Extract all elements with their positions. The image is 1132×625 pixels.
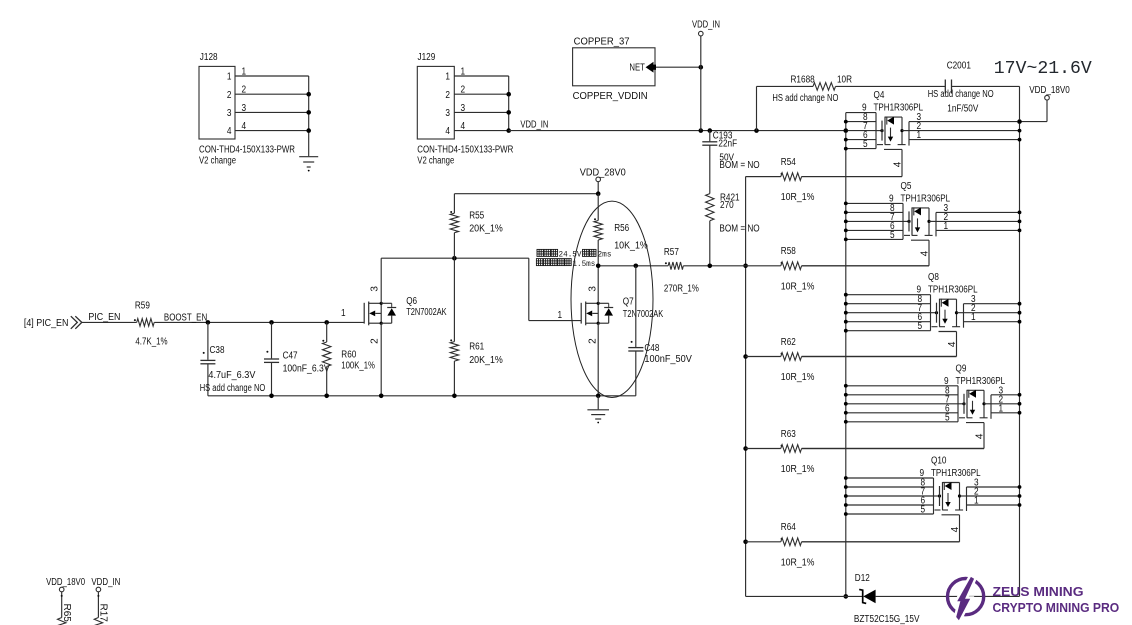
svg-text:R57: R57	[664, 247, 679, 258]
svg-text:4: 4	[445, 126, 450, 137]
svg-text:[4] PIC_EN: [4] PIC_EN	[24, 318, 69, 329]
svg-text:R59: R59	[135, 301, 150, 312]
wire drain bus (right)	[1019, 86, 1021, 596]
svg-text:C2001: C2001	[947, 60, 972, 71]
resistor R58 10R_1%	[746, 246, 929, 292]
svg-text:VDD_IN: VDD_IN	[692, 20, 720, 31]
wire source bus (left)	[844, 113, 849, 599]
svg-text:R62: R62	[781, 337, 796, 348]
wire BOOST_EN	[154, 312, 364, 324]
resistor R64 10R_1%	[746, 522, 960, 568]
svg-text:1: 1	[242, 67, 247, 78]
svg-text:20K_1%: 20K_1%	[469, 355, 503, 366]
wire NET to VDD_IN	[656, 65, 703, 70]
resistor R65 (cut off)	[58, 604, 72, 625]
transistor Q8 TPH1R306PL	[802, 272, 1022, 356]
svg-text:Q8: Q8	[928, 272, 939, 283]
power port VDD_18V0	[1017, 85, 1070, 124]
svg-text:2: 2	[227, 90, 232, 101]
power port VDD_18V0 (bottom left)	[46, 577, 85, 618]
svg-text:1.5ms: 1.5ms	[572, 259, 595, 269]
svg-text:CRYPTO MINING PRO: CRYPTO MINING PRO	[993, 600, 1120, 615]
svg-text:100K_1%: 100K_1%	[341, 361, 375, 372]
svg-text:1: 1	[944, 221, 949, 232]
svg-text:1: 1	[974, 496, 979, 507]
svg-text:R54: R54	[781, 157, 796, 168]
svg-text:BOM = NO: BOM = NO	[719, 223, 759, 234]
transistor Q7 T2N7002AK	[558, 266, 664, 396]
power port VDD_28V0	[580, 168, 626, 194]
resistor R57 270R_1%	[664, 247, 699, 295]
svg-text:1: 1	[461, 67, 466, 78]
svg-text:VDD_18V0: VDD_18V0	[46, 577, 85, 588]
svg-text:R63: R63	[781, 429, 796, 440]
wire gate drive bus	[743, 177, 781, 597]
wire D12 to drain bus	[876, 595, 1020, 597]
svg-text:VDD_28V0: VDD_28V0	[580, 168, 626, 179]
svg-text:COPPER_37: COPPER_37	[574, 36, 630, 47]
svg-text:10R_1%: 10R_1%	[781, 192, 815, 203]
svg-text:R64: R64	[781, 522, 796, 533]
svg-text:2ms: 2ms	[598, 250, 612, 260]
svg-text:C38: C38	[210, 345, 225, 356]
annotation Chinese note line1	[537, 249, 612, 259]
wire VDD_IN rail	[509, 119, 848, 133]
node gate drive row	[596, 264, 746, 269]
svg-text:D12: D12	[855, 573, 870, 584]
svg-text:ZEUS MINING: ZEUS MINING	[993, 584, 1084, 599]
svg-text:Q10: Q10	[931, 456, 947, 467]
svg-text:2: 2	[588, 338, 599, 344]
svg-text:J128: J128	[200, 52, 218, 63]
svg-text:T2N7002AK: T2N7002AK	[406, 307, 447, 318]
ground symbol (J128)	[299, 157, 318, 172]
resistor R172 (cut off)	[94, 604, 108, 625]
svg-text:5: 5	[863, 139, 868, 150]
resistor R61 20K_1%	[450, 258, 503, 396]
svg-text:3: 3	[588, 286, 599, 292]
svg-text:Q9: Q9	[956, 363, 967, 374]
svg-text:2: 2	[445, 90, 450, 101]
resistor R54 10R_1%	[746, 157, 902, 203]
svg-text:HS add change NO: HS add change NO	[772, 93, 838, 104]
wire J129 pin bus	[506, 76, 511, 133]
svg-text:2: 2	[461, 85, 466, 96]
svg-text:22nF: 22nF	[718, 138, 737, 149]
svg-text:Q4: Q4	[874, 90, 885, 101]
capacitor C47 100nF_6.3V	[264, 322, 330, 395]
svg-text:10R_1%: 10R_1%	[781, 281, 815, 292]
svg-text:10R_1%: 10R_1%	[781, 557, 815, 568]
wire VDD_28V0 rail	[454, 191, 600, 196]
svg-text:4: 4	[242, 121, 247, 132]
svg-text:3: 3	[227, 108, 232, 119]
svg-text:3: 3	[461, 103, 466, 114]
svg-text:R56: R56	[614, 223, 629, 234]
transistor Q10 TPH1R306PL	[802, 456, 1022, 542]
svg-text:HS add change NO: HS add change NO	[928, 89, 994, 100]
svg-text:R1688: R1688	[791, 75, 816, 86]
svg-text:4: 4	[919, 250, 930, 256]
svg-text:270R_1%: 270R_1%	[664, 284, 699, 295]
wire J128 pin bus	[306, 76, 311, 156]
svg-text:4: 4	[461, 121, 466, 132]
resistor R63 10R_1%	[746, 429, 984, 475]
svg-text:4: 4	[947, 341, 958, 347]
svg-text:10K_1%: 10K_1%	[614, 241, 648, 252]
svg-text:BOM = NO: BOM = NO	[719, 160, 759, 171]
svg-text:10R: 10R	[837, 75, 852, 86]
svg-text:20K_1%: 20K_1%	[469, 223, 503, 234]
svg-text:BOOST_EN: BOOST_EN	[164, 312, 207, 323]
svg-text:V2 change: V2 change	[199, 155, 236, 166]
svg-text:17V~21.6V: 17V~21.6V	[994, 59, 1092, 79]
svg-text:V2 change: V2 change	[417, 155, 454, 166]
svg-text:5: 5	[918, 321, 923, 332]
svg-text:COPPER_VDDIN: COPPER_VDDIN	[573, 91, 648, 102]
svg-text:HS add change NO: HS add change NO	[200, 383, 266, 394]
svg-text:Q7: Q7	[623, 297, 634, 308]
svg-text:5: 5	[921, 505, 926, 516]
svg-text:BZT52C15G_15V: BZT52C15G_15V	[854, 614, 920, 625]
capacitor C48 100nF_50V	[628, 266, 692, 396]
svg-text:VDD_IN: VDD_IN	[520, 119, 548, 130]
annotation Chinese note line2	[536, 259, 595, 269]
svg-text:1: 1	[971, 312, 976, 323]
wire Q6 drain to divider node	[381, 256, 581, 321]
svg-text:5: 5	[890, 230, 895, 241]
svg-text:1: 1	[227, 72, 232, 83]
svg-text:NET: NET	[629, 63, 645, 74]
resistor R56 10K_1%	[594, 194, 648, 266]
capacitor C38 4.7uF_6.3V	[200, 322, 266, 395]
svg-text:10R_1%: 10R_1%	[781, 372, 815, 383]
svg-text:C47: C47	[283, 351, 298, 362]
svg-text:1: 1	[999, 403, 1004, 414]
svg-text:2: 2	[369, 338, 380, 344]
power port VDD_IN (bottom left)	[91, 577, 120, 618]
svg-text:R55: R55	[469, 210, 484, 221]
wire gate bus to D12	[746, 595, 863, 597]
resistor R59 4.7K_1%	[134, 301, 168, 348]
svg-text:10R_1%: 10R_1%	[781, 464, 815, 475]
svg-text:J129: J129	[418, 52, 436, 63]
svg-text:4: 4	[950, 526, 961, 532]
resistor R60 100K_1%	[322, 322, 375, 395]
svg-text:4: 4	[227, 126, 232, 137]
diode D12 BZT52C15G_15V	[854, 573, 920, 625]
resistor R421	[706, 193, 760, 266]
power port VDD_IN (top)	[692, 20, 720, 131]
svg-text:4: 4	[974, 433, 985, 439]
capacitor C2001	[928, 60, 1020, 114]
transistor Q4 TPH1R306PL	[802, 90, 1022, 177]
transistor Q9 TPH1R306PL	[802, 363, 1022, 448]
svg-text:R60: R60	[341, 349, 356, 360]
svg-text:3: 3	[445, 108, 450, 119]
svg-text:3: 3	[369, 286, 380, 292]
svg-text:1: 1	[445, 72, 450, 83]
svg-text:VDD_IN: VDD_IN	[91, 577, 120, 588]
svg-text:1: 1	[558, 310, 563, 321]
svg-text:PIC_EN: PIC_EN	[88, 312, 120, 323]
svg-text:CON-THD4-150X133-PWR: CON-THD4-150X133-PWR	[417, 144, 513, 155]
ground symbol (main)	[587, 396, 609, 424]
wire PIC_EN	[82, 312, 137, 323]
svg-text:270: 270	[720, 200, 734, 211]
transistor Q5 TPH1R306PL	[802, 181, 1022, 266]
svg-text:100nF_6.3V: 100nF_6.3V	[283, 364, 330, 375]
resistor R1688	[757, 75, 946, 131]
svg-text:1nF/50V: 1nF/50V	[947, 104, 978, 115]
svg-text:CON-THD4-150X133-PWR: CON-THD4-150X133-PWR	[199, 144, 295, 155]
svg-text:R65: R65	[61, 604, 72, 623]
port [4] PIC_EN	[24, 316, 82, 329]
connector J128	[199, 52, 309, 166]
svg-text:4.7K_1%: 4.7K_1%	[135, 337, 167, 348]
svg-text:VDD_18V0: VDD_18V0	[1029, 85, 1070, 96]
svg-text:4.7uF_6.3V: 4.7uF_6.3V	[208, 370, 255, 381]
svg-text:100nF_50V: 100nF_50V	[644, 354, 692, 365]
svg-text:Q6: Q6	[406, 296, 417, 307]
wire ground rail	[208, 394, 636, 399]
resistor R55 20K_1%	[450, 194, 503, 259]
svg-text:T2N7002AK: T2N7002AK	[623, 309, 664, 320]
connector J129	[417, 52, 513, 166]
svg-text:1: 1	[341, 308, 346, 319]
svg-text:R61: R61	[469, 341, 484, 352]
svg-text:5: 5	[945, 412, 950, 423]
annotation 17V~21.6V	[994, 59, 1092, 79]
svg-text:4: 4	[892, 161, 903, 167]
logo Zeus Mining	[948, 577, 1120, 620]
svg-text:1: 1	[917, 130, 922, 141]
svg-text:R17: R17	[98, 604, 109, 623]
svg-text:3: 3	[242, 103, 247, 114]
resistor R62 10R_1%	[746, 337, 957, 383]
transistor Q6 T2N7002AK	[341, 258, 447, 396]
annotation ellipse (soft start highlight)	[571, 201, 653, 397]
svg-text:2: 2	[242, 85, 247, 96]
svg-text:R58: R58	[781, 246, 796, 257]
copper pour COPPER_37	[573, 36, 656, 102]
svg-text:Q5: Q5	[901, 181, 912, 192]
capacitor C193	[702, 131, 760, 194]
